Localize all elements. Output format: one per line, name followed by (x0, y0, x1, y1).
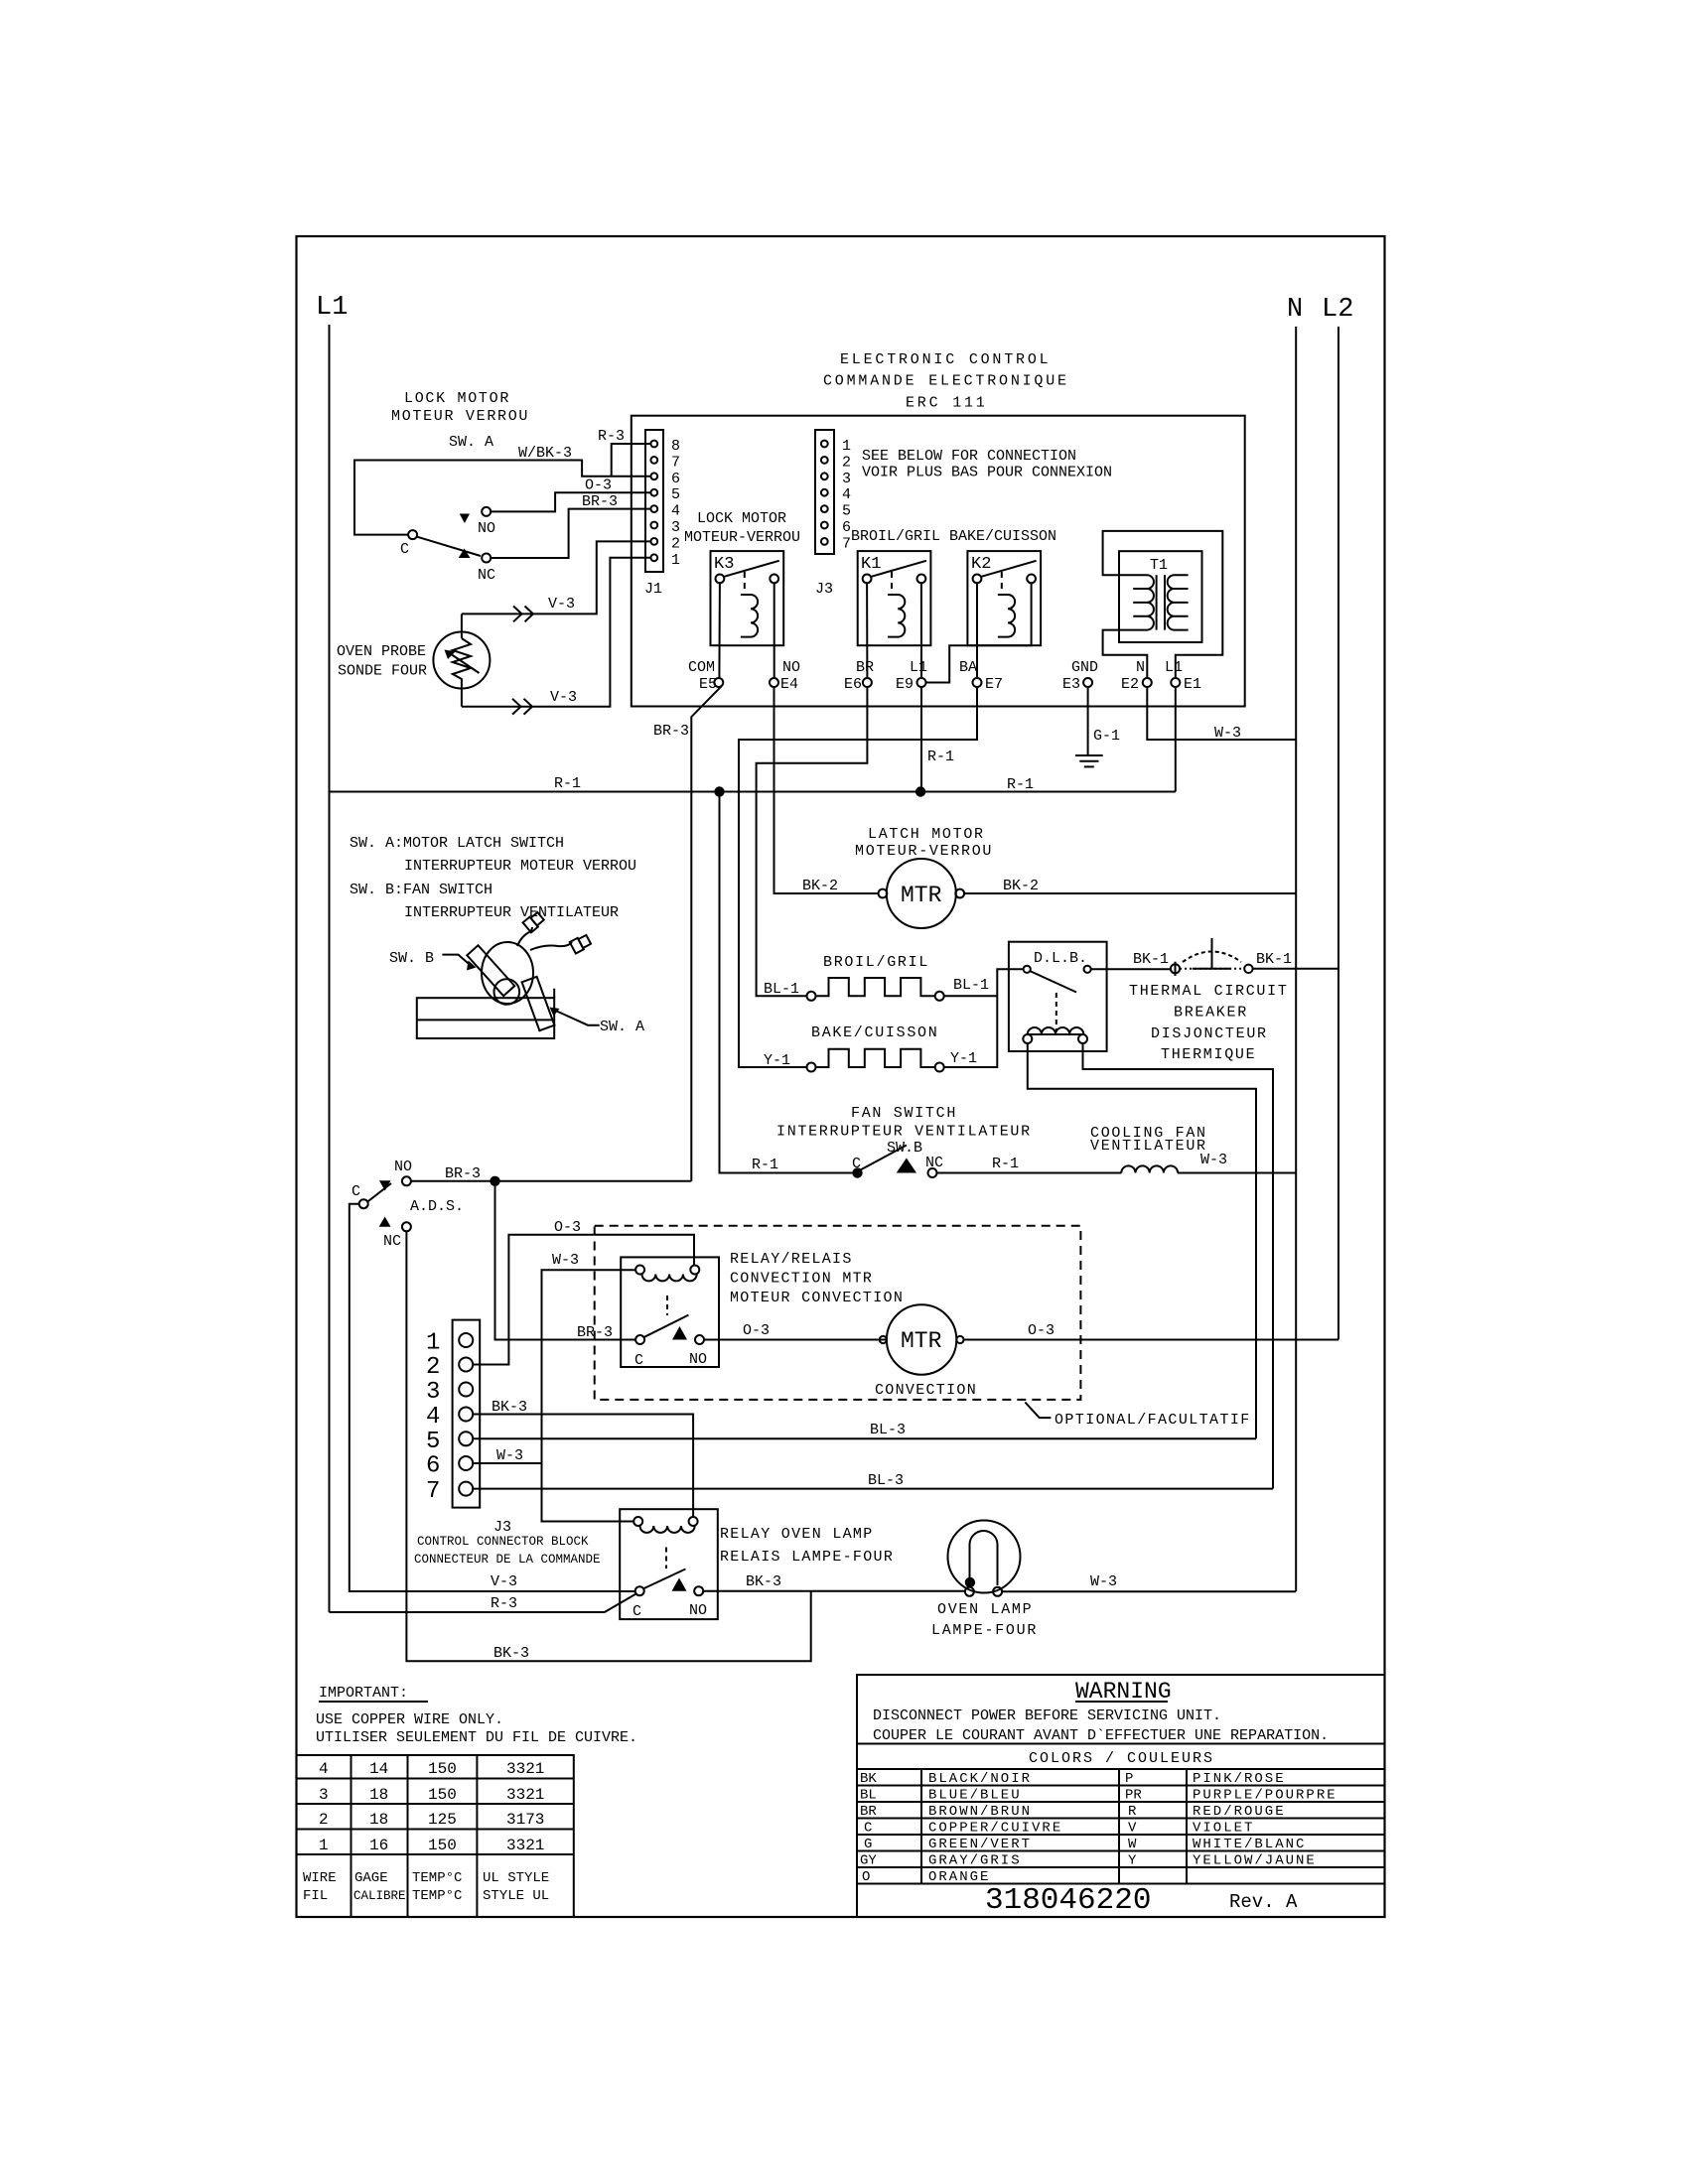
wire A.D.S. C to V-3 (350, 1204, 634, 1591)
svg-text:LOCK MOTOR: LOCK MOTOR (697, 510, 786, 527)
svg-text:NO: NO (689, 1351, 707, 1368)
wire W-3 : oven lamp to N line (1002, 1590, 1296, 1592)
svg-text:FIL: FIL (303, 1888, 328, 1904)
svg-text:O-3: O-3 (743, 1322, 770, 1339)
svg-text:BR-3: BR-3 (445, 1165, 481, 1182)
relay K1 (858, 551, 931, 645)
svg-text:Y-1: Y-1 (950, 1050, 977, 1067)
svg-text:J3: J3 (493, 1519, 511, 1536)
svg-text:18: 18 (369, 1811, 388, 1829)
wire BL-3 : pin5 (473, 1437, 1256, 1439)
svg-text:BR: BR (856, 659, 874, 676)
pictorial: SW.B switch body (467, 945, 514, 996)
svg-text:C: C (352, 1183, 360, 1200)
svg-text:150: 150 (428, 1786, 457, 1804)
terminal E5 (714, 678, 723, 687)
svg-text:BK-3: BK-3 (493, 1645, 529, 1662)
oven lamp (948, 1521, 1021, 1596)
thermal circuit breaker (1171, 938, 1253, 976)
svg-text:K2: K2 (971, 555, 991, 574)
svg-text:Y-1: Y-1 (764, 1052, 790, 1069)
wire fan switch NC to cooling fan (937, 1172, 1122, 1174)
wire BL-3 : pin7 (473, 1488, 1273, 1490)
svg-text:6: 6 (426, 1453, 440, 1480)
svg-text:7: 7 (842, 535, 851, 552)
warning box (857, 1675, 1385, 1918)
svg-text:D.L.B.: D.L.B. (1034, 950, 1087, 967)
relay convection motor (621, 1257, 719, 1369)
transformer T1 (1119, 551, 1202, 642)
svg-text:GAGE: GAGE (354, 1870, 388, 1886)
svg-text:1: 1 (671, 552, 680, 569)
color table grid (857, 1785, 1385, 1787)
svg-text:RELAY/RELAIS: RELAY/RELAIS (730, 1251, 853, 1268)
terminal E4 (770, 678, 778, 687)
svg-text:E5: E5 (699, 676, 717, 693)
svg-text:G: G (864, 1837, 872, 1852)
switch A.D.S. (352, 1159, 464, 1250)
svg-text:BA: BA (959, 659, 977, 676)
wire DLB left coil to BL-3 (pin5 net) (1028, 1043, 1256, 1438)
pictorial: connector plug 1 (523, 911, 545, 933)
svg-text:LOCK MOTOR: LOCK MOTOR (404, 390, 510, 407)
svg-text:O-3: O-3 (1028, 1322, 1055, 1339)
relay K3 (711, 551, 784, 645)
svg-text:GREEN/VERT: GREEN/VERT (928, 1837, 1032, 1852)
svg-text:BAKE/CUISSON: BAKE/CUISSON (811, 1024, 938, 1041)
wire R-1 bus (330, 791, 1176, 793)
svg-text:BROWN/BRUN: BROWN/BRUN (928, 1804, 1032, 1820)
svg-text:STYLE UL: STYLE UL (483, 1888, 549, 1904)
svg-text:2: 2 (319, 1811, 329, 1829)
svg-text:BROIL/GRIL BAKE/CUISSON: BROIL/GRIL BAKE/CUISSON (851, 528, 1056, 545)
svg-text:ELECTRONIC CONTROL: ELECTRONIC CONTROL (840, 351, 1051, 368)
svg-text:R-3: R-3 (598, 428, 625, 445)
svg-text:150: 150 (428, 1760, 457, 1778)
wire O-3 : MTR to L2 (964, 1339, 1339, 1341)
svg-text:BROIL/GRIL: BROIL/GRIL (823, 954, 929, 971)
svg-text:LAMPE-FOUR: LAMPE-FOUR (931, 1622, 1038, 1639)
svg-text:4: 4 (319, 1760, 329, 1778)
svg-text:V-3: V-3 (550, 689, 577, 706)
svg-text:N: N (1136, 659, 1145, 676)
svg-text:TEMP°C: TEMP°C (412, 1870, 462, 1886)
svg-text:BLACK/NOIR: BLACK/NOIR (928, 1771, 1032, 1787)
wire R-1 : E1 down to R-1 bus (1175, 687, 1177, 792)
svg-text:NO: NO (478, 520, 495, 537)
bake element (807, 1049, 944, 1072)
svg-text:BK-2: BK-2 (802, 878, 838, 894)
wire L2 vertical (1337, 327, 1339, 1339)
terminal E6 (863, 678, 872, 687)
svg-text:3173: 3173 (506, 1811, 544, 1829)
svg-text:R-1: R-1 (752, 1157, 778, 1173)
relay K2 (967, 551, 1041, 645)
wire BK-3 : pin4 to oven lamp relay coil (473, 1415, 693, 1518)
broil element (807, 978, 944, 1001)
svg-text:L1: L1 (910, 659, 927, 676)
wire W-3 : net pin6 / coils (542, 1270, 636, 1521)
wire broil right to DLB (944, 995, 998, 997)
svg-text:RELAIS LAMPE-FOUR: RELAIS LAMPE-FOUR (720, 1549, 894, 1566)
chevrons on upper V-3 wire (513, 607, 522, 622)
pictorial: latch assembly base (417, 989, 554, 1038)
wire W-3 : pin6 (473, 1462, 541, 1464)
svg-text:DISCONNECT POWER BEFORE SERVIC: DISCONNECT POWER BEFORE SERVICING UNIT. (873, 1707, 1221, 1724)
svg-text:BR-3: BR-3 (653, 723, 689, 740)
svg-text:E7: E7 (985, 676, 1003, 693)
cooling fan inductor (1121, 1165, 1178, 1172)
svg-text:C: C (633, 1603, 641, 1620)
relay D.L.B. (1009, 942, 1107, 1051)
svg-text:W: W (1128, 1837, 1137, 1852)
svg-text:2: 2 (671, 535, 680, 552)
svg-text:LATCH MOTOR: LATCH MOTOR (868, 826, 985, 843)
svg-text:3321: 3321 (506, 1760, 544, 1778)
svg-text:W-3: W-3 (496, 1447, 523, 1464)
svg-text:2: 2 (842, 454, 851, 471)
terminal E2 (1143, 678, 1152, 687)
svg-text:VIOLET: VIOLET (1193, 1821, 1254, 1837)
wire A.D.S. NC down (BK-3 loop) (406, 1231, 810, 1661)
wire BR-3 : junction down to convection relay C (495, 1181, 635, 1340)
switch SW.B (fan switch) (852, 1146, 936, 1178)
wire BK-1 to L2 (1253, 968, 1338, 970)
svg-text:W/BK-3: W/BK-3 (518, 445, 572, 462)
svg-text:BR-3: BR-3 (582, 493, 618, 510)
wire table (297, 1755, 574, 1917)
svg-text:PR: PR (1125, 1788, 1142, 1804)
svg-text:G-1: G-1 (1093, 728, 1120, 745)
svg-text:318046220: 318046220 (985, 1883, 1151, 1918)
svg-text:BREAKER: BREAKER (1174, 1005, 1248, 1022)
wire G-1 to ground (1087, 687, 1089, 755)
svg-text:J3: J3 (815, 581, 833, 598)
svg-text:W-3: W-3 (1200, 1152, 1227, 1168)
svg-text:BL-1: BL-1 (953, 977, 989, 994)
svg-text:E4: E4 (780, 676, 798, 693)
terminal E3 (1083, 678, 1092, 687)
svg-text:FAN SWITCH: FAN SWITCH (851, 1105, 957, 1122)
svg-text:2: 2 (426, 1354, 440, 1381)
svg-text:MOTEUR CONVECTION: MOTEUR CONVECTION (730, 1290, 904, 1306)
svg-text:VENTILATEUR: VENTILATEUR (1090, 1138, 1207, 1155)
svg-text:NC: NC (383, 1233, 401, 1250)
svg-text:PINK/ROSE: PINK/ROSE (1193, 1771, 1286, 1787)
wire E9 to R-1 bus (junction) (920, 687, 922, 792)
optional dashed box (595, 1226, 1081, 1400)
svg-text:14: 14 (369, 1760, 388, 1778)
svg-text:BK-1: BK-1 (1133, 951, 1169, 968)
svg-text:T1: T1 (1150, 557, 1168, 574)
svg-text:BLUE/BLEU: BLUE/BLEU (928, 1788, 1022, 1804)
svg-text:5: 5 (842, 503, 851, 520)
svg-text:O: O (862, 1869, 870, 1885)
pictorial: motor body (482, 942, 533, 1004)
svg-text:1: 1 (319, 1837, 329, 1854)
svg-text:INTERRUPTEUR VENTILATEUR: INTERRUPTEUR VENTILATEUR (776, 1124, 1032, 1141)
wire W-3 : E2 to N line (1147, 687, 1296, 740)
svg-text:V: V (1128, 1821, 1137, 1837)
svg-text:R: R (1128, 1804, 1137, 1820)
svg-text:CONVECTION: CONVECTION (875, 1382, 977, 1399)
svg-text:SW.B: SW.B (887, 1140, 922, 1157)
svg-text:MOTEUR-VERROU: MOTEUR-VERROU (684, 529, 800, 546)
terminal E9 (917, 678, 926, 687)
wire DLB right contact to breaker (1091, 968, 1171, 970)
wire T1 primary bottom to E2 (1103, 630, 1148, 678)
wire bake right to DLB node (944, 969, 1024, 1067)
wire K2 left contact to E7 (976, 583, 978, 678)
motor MTR (latch) (879, 859, 965, 928)
svg-text:BL-3: BL-3 (870, 1422, 906, 1438)
svg-text:E3: E3 (1062, 676, 1080, 693)
svg-text:BK-2: BK-2 (1003, 878, 1039, 894)
wire O-3 : SW.A NO to J1 pin 5 (491, 492, 650, 511)
svg-text:K1: K1 (861, 555, 881, 574)
pointer OPTIONAL/FACULTATIF (1025, 1403, 1051, 1419)
wire K1 right contact to E9 (920, 583, 922, 678)
svg-text:PURPLE/POURPRE: PURPLE/POURPRE (1193, 1788, 1337, 1804)
wire BR-3 : A.D.S. NO to BR-3 vertical (411, 1180, 691, 1182)
svg-text:MOTEUR-VERROU: MOTEUR-VERROU (855, 843, 993, 860)
svg-text:8: 8 (671, 438, 680, 455)
svg-text:7: 7 (671, 454, 680, 471)
wire N vertical (1295, 327, 1297, 1591)
svg-text:RELAY OVEN LAMP: RELAY OVEN LAMP (720, 1526, 874, 1543)
wire BK-3 : relay NO to oven lamp (703, 1590, 965, 1592)
svg-text:A.D.S.: A.D.S. (410, 1198, 464, 1215)
svg-text:4: 4 (671, 503, 680, 520)
svg-text:OVEN LAMP: OVEN LAMP (937, 1601, 1033, 1618)
svg-text:Y: Y (1128, 1853, 1137, 1869)
wire K3 COM to E5 (718, 583, 721, 678)
svg-text:NO: NO (782, 659, 800, 676)
svg-text:MOTEUR VERROU: MOTEUR VERROU (391, 408, 529, 425)
svg-text:CONNECTEUR DE LA COMMANDE: CONNECTEUR DE LA COMMANDE (414, 1553, 601, 1567)
svg-text:COPPER/CUIVRE: COPPER/CUIVRE (928, 1821, 1062, 1837)
svg-text:MTR: MTR (901, 883, 942, 908)
svg-text:BK-3: BK-3 (746, 1573, 781, 1590)
svg-text:3: 3 (426, 1379, 440, 1406)
svg-text:BR: BR (860, 1804, 877, 1820)
svg-text:COM: COM (688, 659, 715, 676)
svg-text:MTR: MTR (901, 1328, 942, 1354)
svg-text:BK: BK (860, 1771, 877, 1787)
svg-text:SW. A: SW. A (449, 434, 493, 451)
svg-text:5: 5 (426, 1429, 440, 1455)
wire cooling fan to N line (1178, 1172, 1296, 1174)
svg-text:6: 6 (671, 471, 680, 487)
svg-text:150: 150 (428, 1837, 457, 1854)
junction dot R-1/E9 (915, 786, 925, 796)
svg-text:SW. B: SW. B (389, 950, 434, 967)
wire E9 to K2 right contact (926, 583, 1032, 682)
svg-text:4: 4 (842, 486, 851, 503)
svg-text:R-1: R-1 (992, 1156, 1019, 1172)
terminal E1 (1171, 678, 1180, 687)
junction dot R-1/fan (714, 786, 724, 796)
svg-text:C: C (864, 1821, 872, 1837)
connector J3 top (815, 430, 851, 598)
svg-text:UTILISER SEULEMENT DU FIL DE C: UTILISER SEULEMENT DU FIL DE CUIVRE. (316, 1729, 637, 1746)
junction dot BR-3 (490, 1176, 499, 1186)
svg-text:SW. A:MOTOR LATCH SWITCH: SW. A:MOTOR LATCH SWITCH (350, 835, 564, 852)
svg-text:V-3: V-3 (548, 596, 575, 613)
svg-text:L1: L1 (316, 293, 348, 323)
wire V-3 : J1 pin 1 to oven probe bottom (462, 558, 651, 707)
svg-text:3: 3 (319, 1786, 329, 1804)
switch SW.A (motor latch switch) (400, 507, 495, 584)
svg-text:C: C (400, 541, 409, 558)
connector J1 (644, 430, 680, 598)
svg-text:3: 3 (671, 519, 680, 536)
svg-text:125: 125 (428, 1811, 457, 1829)
svg-text:6: 6 (842, 519, 851, 536)
wire E6 to broil element (757, 687, 868, 996)
svg-text:O-3: O-3 (554, 1219, 581, 1236)
wire R-3 : J1 pin 8 (612, 444, 651, 477)
svg-text:COMMANDE ELECTRONIQUE: COMMANDE ELECTRONIQUE (823, 373, 1069, 390)
svg-text:WIRE: WIRE (303, 1870, 337, 1886)
svg-text:SW. B:FAN SWITCH: SW. B:FAN SWITCH (350, 882, 492, 898)
svg-text:W-3: W-3 (1214, 725, 1241, 742)
svg-text:OPTIONAL/FACULTATIF: OPTIONAL/FACULTATIF (1055, 1412, 1251, 1429)
svg-text:V-3: V-3 (491, 1573, 517, 1590)
svg-text:TEMP°C: TEMP°C (412, 1888, 462, 1904)
pictorial: connector plug 2 (570, 934, 592, 954)
svg-text:BK-1: BK-1 (1256, 951, 1292, 968)
svg-text:OVEN PROBE: OVEN PROBE (337, 643, 426, 660)
wire V-3 : J1 pin 2 to oven probe top (462, 541, 651, 614)
wire BK-2 : E4 to latch motor (774, 687, 879, 893)
svg-text:USE COPPER WIRE ONLY.: USE COPPER WIRE ONLY. (316, 1711, 503, 1728)
svg-text:CONTROL CONNECTOR BLOCK: CONTROL CONNECTOR BLOCK (417, 1535, 589, 1549)
svg-text:K3: K3 (714, 555, 734, 574)
pictorial: SW.A switch body (522, 977, 555, 1030)
wire R-1 branch to fan switch (720, 792, 853, 1173)
relay oven lamp (620, 1509, 718, 1620)
svg-text:THERMIQUE: THERMIQUE (1161, 1046, 1256, 1063)
wire BR-3 : E5 down long vertical (691, 686, 721, 1181)
svg-text:GND: GND (1071, 659, 1098, 676)
svg-text:COLORS / COULEURS: COLORS / COULEURS (1029, 1750, 1214, 1767)
svg-text:NO: NO (689, 1602, 707, 1619)
svg-text:BL-3: BL-3 (868, 1472, 904, 1489)
svg-text:R-1: R-1 (1007, 776, 1034, 793)
wire O-3 : convection relay NO to MTR (704, 1339, 887, 1341)
svg-text:R-1: R-1 (927, 749, 954, 765)
svg-text:SONDE FOUR: SONDE FOUR (338, 663, 427, 680)
svg-text:R-1: R-1 (554, 775, 581, 792)
svg-text:WHITE/BLANC: WHITE/BLANC (1193, 1837, 1306, 1852)
chevrons on lower V-3 wire (512, 699, 521, 715)
svg-text:YELLOW/JAUNE: YELLOW/JAUNE (1193, 1853, 1317, 1869)
terminal E7 (973, 678, 982, 687)
wire T1 primary top loop to E1 (1103, 531, 1223, 678)
wire BR-3 : SW.A NC to J1 pin 4 (491, 509, 650, 558)
svg-text:4: 4 (426, 1404, 440, 1431)
svg-text:1: 1 (842, 438, 851, 455)
svg-text:INTERRUPTEUR VENTILATEUR: INTERRUPTEUR VENTILATEUR (404, 904, 619, 921)
svg-text:UL STYLE: UL STYLE (483, 1870, 549, 1886)
svg-text:E6: E6 (844, 676, 862, 693)
svg-text:THERMAL CIRCUIT: THERMAL CIRCUIT (1129, 983, 1289, 1000)
svg-text:NO: NO (394, 1159, 412, 1175)
svg-text:E2: E2 (1121, 676, 1139, 693)
wire BK-2 : latch motor to N line (964, 892, 1296, 894)
svg-text:ORANGE: ORANGE (928, 1869, 990, 1885)
wire R-3 : L1 to relay C (diagonal) (330, 1594, 636, 1613)
svg-text:BL: BL (860, 1788, 877, 1804)
svg-text:NC: NC (478, 567, 495, 584)
svg-text:C: C (852, 1156, 861, 1172)
motor MTR convection (880, 1304, 964, 1374)
pictorial: motor lead wires (517, 927, 532, 946)
wire DLB right coil to BL-3 (pin7 net) (1083, 1043, 1274, 1489)
svg-text:INTERRUPTEUR MOTEUR VERROU: INTERRUPTEUR MOTEUR VERROU (404, 858, 636, 875)
svg-text:3: 3 (842, 471, 851, 487)
svg-text:L1: L1 (1165, 659, 1183, 676)
svg-text:IMPORTANT:: IMPORTANT: (319, 1685, 408, 1702)
svg-text:E1: E1 (1184, 676, 1201, 693)
svg-text:L2: L2 (1322, 295, 1353, 325)
wire K3 NO to E4 (774, 583, 775, 678)
svg-text:C: C (634, 1352, 643, 1369)
svg-text:SEE BELOW FOR CONNECTION: SEE BELOW FOR CONNECTION (862, 448, 1076, 465)
svg-text:CONVECTION MTR: CONVECTION MTR (730, 1271, 873, 1288)
border frame (297, 236, 1385, 1917)
wire L1 vertical (329, 325, 331, 1612)
svg-text:5: 5 (671, 486, 680, 503)
svg-text:7: 7 (426, 1478, 440, 1505)
svg-text:SW. A: SW. A (600, 1019, 644, 1035)
svg-text:DISJONCTEUR: DISJONCTEUR (1151, 1025, 1268, 1042)
svg-text:3321: 3321 (506, 1786, 544, 1804)
svg-text:J1: J1 (644, 581, 662, 598)
wire E7 to bake element (739, 687, 977, 1067)
ground symbol (1075, 755, 1103, 766)
svg-text:W-3: W-3 (552, 1252, 579, 1269)
svg-text:ERC 111: ERC 111 (906, 395, 988, 412)
svg-text:18: 18 (369, 1786, 388, 1804)
svg-text:N: N (1287, 295, 1303, 325)
svg-text:1: 1 (426, 1330, 440, 1357)
svg-text:VOIR PLUS BAS POUR CONNEXION: VOIR PLUS BAS POUR CONNEXION (862, 465, 1112, 481)
oven probe (thermistor) (433, 614, 490, 706)
svg-text:16: 16 (369, 1837, 388, 1854)
svg-text:NC: NC (925, 1155, 943, 1171)
connector J3 bottom (426, 1320, 480, 1508)
svg-text:P: P (1125, 1771, 1133, 1787)
svg-text:RED/ROUGE: RED/ROUGE (1193, 1804, 1286, 1820)
wire W/BK-3 : SW.A C to J1 pin 6 (354, 461, 650, 535)
svg-text:W-3: W-3 (1090, 1573, 1117, 1590)
wire K1 left contact to E6 (866, 583, 868, 678)
svg-text:GY: GY (860, 1853, 877, 1869)
svg-text:O-3: O-3 (585, 478, 612, 494)
svg-text:CALIBRE: CALIBRE (353, 1889, 406, 1903)
svg-text:BK-3: BK-3 (492, 1399, 527, 1416)
svg-text:3321: 3321 (506, 1837, 544, 1854)
svg-text:GRAY/GRIS: GRAY/GRIS (928, 1853, 1022, 1869)
svg-text:COUPER LE COURANT AVANT D`EFFE: COUPER LE COURANT AVANT D`EFFECTUER UNE … (873, 1727, 1329, 1744)
svg-text:BL-1: BL-1 (764, 981, 799, 998)
svg-text:Rev. A: Rev. A (1229, 1891, 1298, 1913)
svg-text:R-3: R-3 (491, 1595, 517, 1612)
electronic control box ERC 111 (632, 416, 1245, 707)
wire O-3 : J3 pin2 to convection coil (473, 1235, 694, 1365)
